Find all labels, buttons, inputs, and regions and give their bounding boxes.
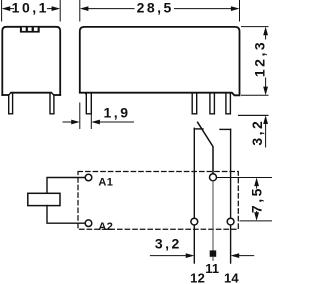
dimension 12,3 top extension line (242, 26, 269, 28)
side view pin 14 (226, 93, 231, 114)
svg-text:10,1: 10,1 (12, 0, 49, 16)
contact 12 line (193, 128, 195, 218)
dimension 1,9 arrows and lines (63, 121, 134, 123)
front view bottom edge outer-left segment (2, 94, 8, 96)
svg-text:A1: A1 (98, 177, 113, 189)
front view bottom edge outer-right segment (54, 94, 60, 96)
dimension 7,5 top extension line (217, 177, 272, 179)
front view case outline (2, 27, 60, 95)
dimension 1,9 extension lines (80, 103, 92, 129)
side pins bottom extension line (239, 114, 269, 116)
contact 14 line (230, 129, 232, 218)
wire A1 to coil (47, 178, 85, 194)
svg-text:12: 12 (190, 271, 205, 284)
svg-text:7,5: 7,5 (248, 186, 264, 213)
contact 12 lower stub (193, 225, 195, 263)
dimension 3,2 side extension lines (239, 95, 269, 115)
coil (28, 193, 60, 205)
dimension 10,1 arrows and line (10, 8, 52, 10)
terminal A1 (85, 174, 92, 181)
pin 11 wire (212, 181, 214, 250)
side view case outline (80, 27, 240, 95)
terminal 14 circle (227, 218, 234, 225)
dimension 10,1 extension lines (2, 0, 61, 21)
terminal 12 circle (191, 218, 198, 225)
front view right pin (50, 93, 54, 114)
svg-text:12,3: 12,3 (252, 40, 268, 77)
svg-text:14: 14 (224, 271, 239, 284)
svg-text:3,2: 3,2 (155, 236, 182, 252)
svg-text:1,9: 1,9 (104, 105, 131, 121)
front view bottom edge inner segment (11, 92, 51, 94)
svg-text:3,2: 3,2 (249, 119, 265, 146)
dimension 7,5 line and arrows (256, 184, 258, 214)
dimension 28,5 arrows and line (88, 8, 231, 10)
contact 14 lower stub (230, 225, 232, 263)
contact 12 anvil tick (194, 128, 203, 130)
dimension 12,3 line and arrows (265, 33, 267, 88)
svg-text:11: 11 (205, 261, 219, 276)
dimension 28,5 extension lines (80, 0, 240, 21)
side view coil pin (86, 93, 91, 114)
pin 11 lower stub (212, 257, 214, 261)
front view left pin (9, 93, 13, 114)
side view pin 12 (192, 93, 197, 114)
dimension 7,5 bottom extension line (240, 220, 272, 222)
switch blade (198, 122, 213, 173)
svg-text:A2: A2 (98, 221, 113, 233)
svg-text:28,5: 28,5 (137, 0, 174, 16)
pivot 11 circle (210, 174, 217, 181)
side view pin 11 (210, 93, 215, 114)
dimension 3,2 bottom arrows and lines (150, 255, 253, 257)
wire A2 to coil (47, 206, 85, 224)
terminal A2 (85, 220, 92, 227)
pin 11 square marker (210, 250, 217, 256)
schematic dashed outline (78, 172, 238, 230)
dimension 3,2 side arrow and line (263, 115, 268, 124)
contact 14 anvil tick (220, 128, 231, 130)
front view vent detail (20, 26, 40, 32)
